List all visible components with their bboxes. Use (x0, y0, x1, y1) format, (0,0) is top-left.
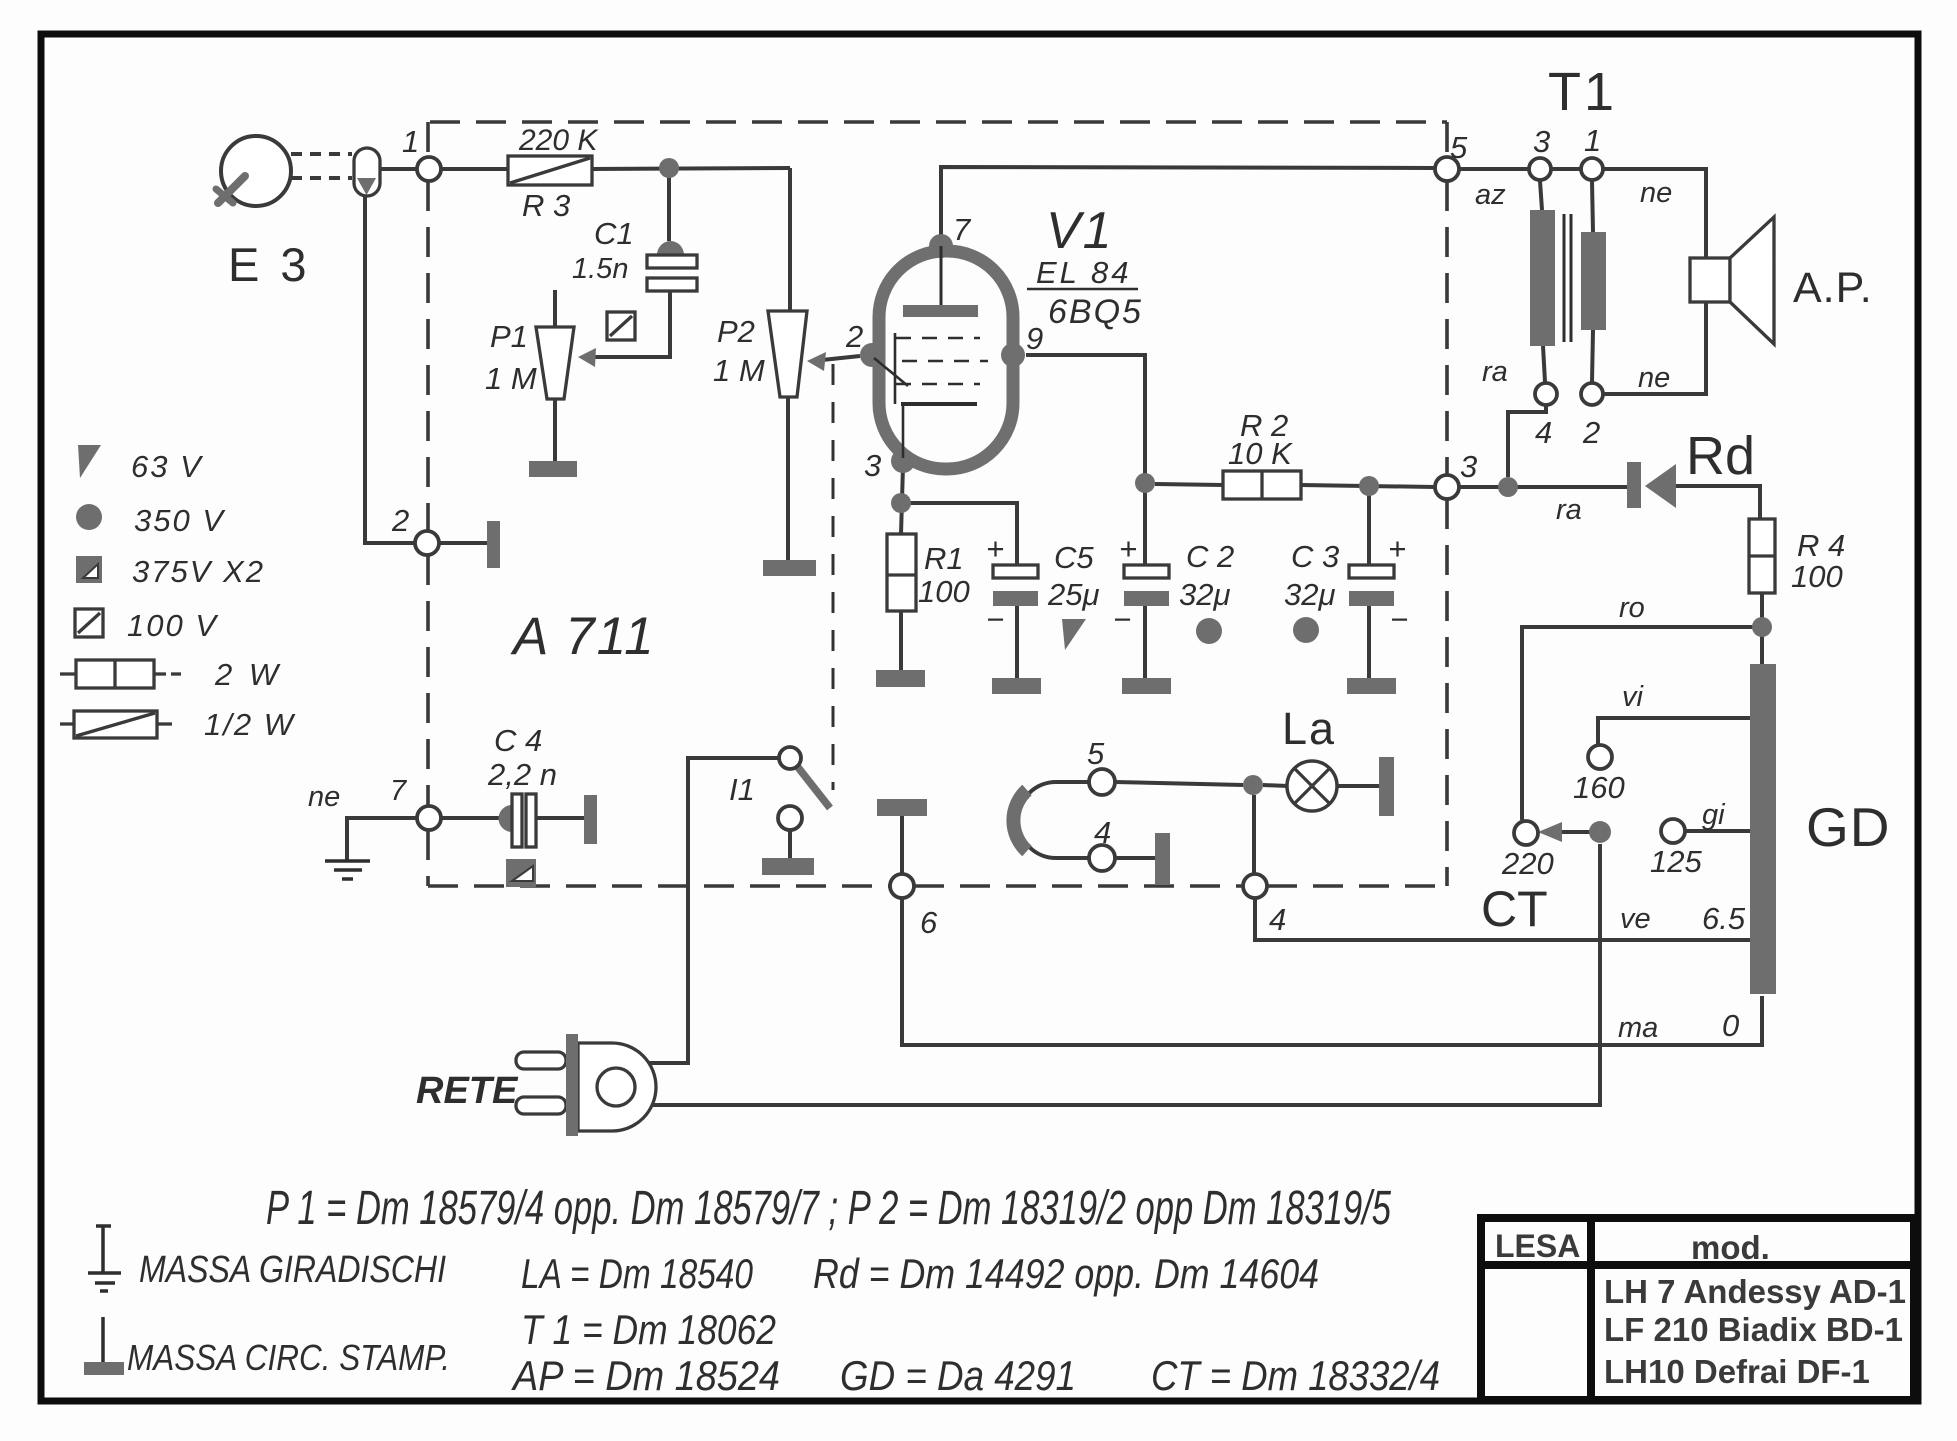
svg-text:R1: R1 (924, 541, 964, 576)
svg-text:1.5n: 1.5n (572, 253, 628, 285)
svg-text:+: + (1119, 531, 1137, 566)
svg-text:9: 9 (1026, 321, 1043, 356)
svg-text:vi: vi (1622, 681, 1645, 713)
svg-text:R 4: R 4 (1797, 528, 1845, 563)
svg-text:2: 2 (391, 503, 409, 538)
svg-text:ma: ma (1618, 1012, 1658, 1044)
svg-text:LF 210 Biadix BD-1: LF 210 Biadix BD-1 (1604, 1311, 1903, 1348)
svg-text:LA = Dm 18540: LA = Dm 18540 (521, 1250, 754, 1297)
svg-text:MASSA GIRADISCHI: MASSA GIRADISCHI (139, 1249, 446, 1291)
svg-text:1: 1 (1584, 123, 1601, 158)
svg-text:ve: ve (1620, 903, 1651, 935)
svg-text:−: − (1390, 602, 1408, 637)
svg-text:ro: ro (1619, 592, 1645, 624)
svg-text:32μ: 32μ (1284, 577, 1335, 612)
svg-text:C 4: C 4 (494, 723, 542, 758)
svg-text:3: 3 (1460, 449, 1477, 484)
svg-text:CT = Dm 18332/4: CT = Dm 18332/4 (1151, 1352, 1440, 1399)
svg-text:4: 4 (1094, 815, 1111, 850)
svg-text:C5: C5 (1054, 540, 1094, 575)
svg-text:CT: CT (1481, 881, 1548, 937)
svg-text:25μ: 25μ (1047, 577, 1099, 612)
svg-text:1 M: 1 M (713, 353, 765, 388)
svg-text:0: 0 (1722, 1008, 1739, 1043)
svg-text:1 M: 1 M (485, 361, 537, 396)
svg-text:I1: I1 (729, 772, 755, 807)
svg-text:ra: ra (1556, 494, 1582, 526)
svg-text:350 V: 350 V (134, 503, 226, 538)
svg-text:160: 160 (1573, 770, 1625, 805)
svg-text:4: 4 (1269, 902, 1286, 937)
svg-text:P2: P2 (717, 314, 755, 349)
svg-text:GD: GD (1806, 796, 1891, 858)
svg-text:mod.: mod. (1691, 1229, 1770, 1266)
svg-text:Rd: Rd (1686, 426, 1755, 486)
svg-text:AP = Dm 18524: AP = Dm 18524 (510, 1352, 780, 1399)
svg-text:220 K: 220 K (518, 124, 599, 157)
svg-text:LESA: LESA (1495, 1228, 1580, 1264)
svg-text:5: 5 (1087, 736, 1105, 771)
svg-text:C 3: C 3 (1291, 539, 1339, 574)
svg-text:P1: P1 (490, 319, 528, 354)
svg-text:+: + (986, 531, 1004, 566)
svg-text:gi: gi (1702, 799, 1726, 831)
svg-text:6BQ5: 6BQ5 (1048, 293, 1143, 331)
svg-text:100 V: 100 V (127, 608, 219, 643)
svg-text:3: 3 (1533, 124, 1550, 159)
svg-text:ra: ra (1482, 356, 1508, 388)
svg-text:5: 5 (1450, 130, 1468, 165)
svg-text:7: 7 (390, 775, 408, 807)
svg-text:Rd = Dm 14492 opp. Dm 14604: Rd = Dm 14492 opp. Dm 14604 (813, 1250, 1319, 1297)
svg-text:LH10 Defrai DF-1: LH10 Defrai DF-1 (1604, 1353, 1870, 1390)
svg-text:RETE: RETE (416, 1070, 519, 1112)
svg-text:2: 2 (1582, 415, 1600, 450)
svg-text:EL 84: EL 84 (1036, 255, 1131, 290)
svg-text:R 3: R 3 (522, 188, 570, 223)
svg-text:7: 7 (953, 212, 972, 247)
svg-text:6.5: 6.5 (1702, 901, 1746, 936)
svg-text:3: 3 (864, 448, 881, 483)
svg-text:1: 1 (1584, 62, 1614, 122)
svg-text:−: − (1113, 602, 1131, 637)
svg-text:32μ: 32μ (1179, 577, 1230, 612)
svg-text:E 3: E 3 (228, 238, 311, 291)
svg-text:ne: ne (1638, 362, 1670, 394)
svg-text:A.P.: A.P. (1793, 264, 1873, 312)
svg-text:C 2: C 2 (1186, 539, 1234, 574)
svg-text:125: 125 (1650, 844, 1702, 879)
svg-text:220: 220 (1501, 846, 1554, 881)
svg-text:2,2 n: 2,2 n (487, 757, 557, 792)
svg-text:100: 100 (918, 574, 970, 609)
svg-text:T 1 = Dm 18062: T 1 = Dm 18062 (521, 1306, 776, 1353)
svg-text:LH 7 Andessy AD-1: LH 7 Andessy AD-1 (1604, 1273, 1906, 1310)
svg-text:ne: ne (1640, 177, 1672, 209)
svg-text:+: + (1388, 531, 1406, 566)
svg-text:az: az (1475, 179, 1506, 211)
svg-text:−: − (986, 602, 1004, 637)
svg-text:375V X2: 375V X2 (132, 554, 265, 589)
svg-text:La: La (1282, 703, 1336, 754)
svg-text:1: 1 (402, 124, 419, 159)
svg-text:C1: C1 (594, 216, 634, 251)
svg-text:A 711: A 711 (510, 607, 656, 666)
svg-text:63 V: 63 V (131, 449, 204, 484)
svg-text:GD = Da 4291: GD = Da 4291 (840, 1352, 1076, 1399)
svg-text:P 1 = Dm 18579/4 opp. Dm 18579: P 1 = Dm 18579/4 opp. Dm 18579/7 ; P 2 =… (266, 1182, 1391, 1235)
svg-text:1/2 W: 1/2 W (204, 707, 296, 742)
svg-text:100: 100 (1791, 559, 1843, 594)
svg-text:10 K: 10 K (1228, 436, 1293, 471)
svg-text:ne: ne (308, 781, 340, 813)
svg-text:V1: V1 (1046, 202, 1114, 260)
svg-text:4: 4 (1535, 415, 1552, 450)
svg-text:MASSA CIRC. STAMP.: MASSA CIRC. STAMP. (127, 1337, 450, 1378)
svg-text:6: 6 (920, 905, 938, 940)
svg-text:T: T (1548, 62, 1581, 122)
svg-text:2: 2 (845, 319, 863, 354)
svg-text:2 W: 2 W (214, 657, 282, 692)
